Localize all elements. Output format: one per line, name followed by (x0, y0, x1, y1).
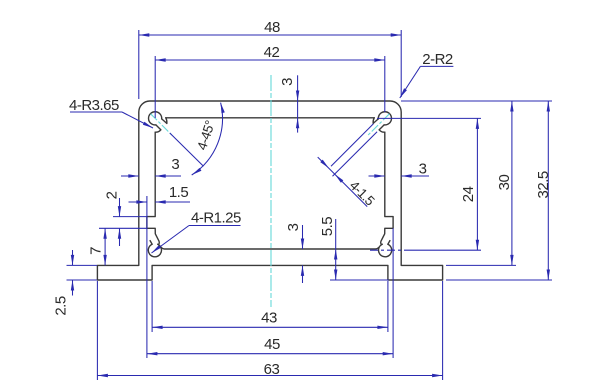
svg-text:4-R1.25: 4-R1.25 (191, 210, 241, 227)
svg-text:43: 43 (261, 310, 277, 327)
svg-text:2: 2 (104, 191, 121, 199)
svg-text:2.5: 2.5 (53, 296, 70, 316)
svg-text:32.5: 32.5 (535, 171, 552, 198)
svg-text:4-1.5: 4-1.5 (347, 178, 378, 209)
svg-text:1.5: 1.5 (169, 184, 189, 201)
svg-text:3: 3 (285, 223, 302, 231)
svg-text:3: 3 (171, 156, 179, 173)
svg-text:42: 42 (264, 44, 280, 61)
svg-text:48: 48 (264, 19, 280, 36)
svg-text:63: 63 (264, 361, 280, 378)
svg-text:3: 3 (279, 78, 296, 86)
svg-text:3: 3 (419, 161, 427, 178)
svg-text:5.5: 5.5 (319, 217, 336, 237)
svg-text:2-R2: 2-R2 (422, 51, 453, 68)
svg-text:45: 45 (264, 336, 280, 353)
svg-text:4-45°: 4-45° (194, 119, 218, 152)
svg-text:4-R3.65: 4-R3.65 (69, 97, 119, 114)
svg-text:30: 30 (496, 175, 513, 191)
svg-text:24: 24 (460, 186, 477, 202)
svg-text:7: 7 (88, 247, 105, 255)
